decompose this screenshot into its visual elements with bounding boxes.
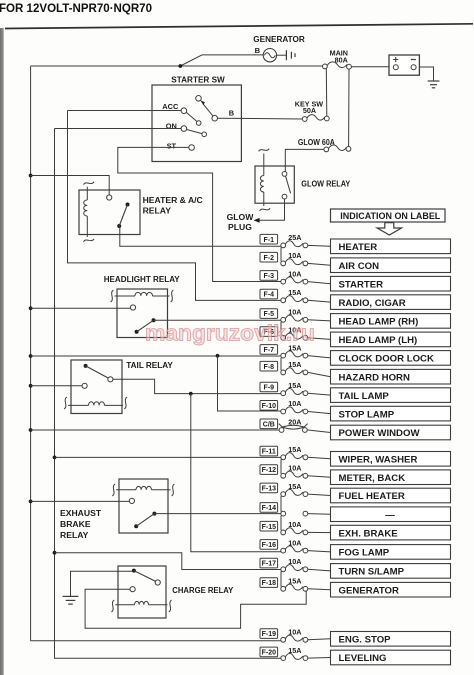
wire F-19 to label box: [308, 639, 331, 640]
fuse KEY SW 50A symbol: [302, 115, 329, 122]
glow relay box: [255, 166, 294, 203]
node dot bus to tail relay: [29, 384, 33, 388]
charge relay coil break right: [169, 600, 172, 612]
wire F-20 to label box: [308, 657, 331, 660]
generator G1 circle with sine: [263, 49, 276, 62]
label box POWER WINDOW: [331, 425, 451, 440]
fuse F-6 id box: [260, 327, 278, 337]
fuse F-11 id box: [260, 446, 278, 456]
wire F-17 to label box: [308, 569, 331, 571]
wire fuse pair link: [280, 459, 282, 474]
label box TURN S/LAMP: [331, 564, 451, 579]
svg-text:F-2: F-2: [264, 255, 275, 262]
label box WIPER, WASHER: [331, 452, 451, 467]
indication arrow: [377, 223, 401, 235]
wire MAIN to KEY SW fuse: [325, 69, 328, 117]
wire MAIN to GLOW fuse: [348, 69, 350, 146]
exhaust brake relay coil: [116, 486, 170, 489]
label box STOP LAMP: [331, 406, 451, 421]
wire fuse pair link: [280, 571, 282, 587]
label box FUEL HEATER: [331, 488, 451, 503]
label box HAZARD HORN: [331, 369, 451, 384]
svg-text:EXHAUST: EXHAUST: [60, 508, 102, 518]
wire F-13 to label box: [308, 494, 331, 495]
heater relay coil: [84, 187, 88, 237]
fuse F-6 symbol: [281, 333, 308, 340]
svg-text:HEATER & A/C: HEATER & A/C: [143, 195, 203, 205]
wire F-5 to label box: [308, 320, 331, 321]
exhaust brake relay coil break right: [172, 484, 175, 496]
label box METER, BACK: [331, 470, 451, 485]
ground (charge relay): [63, 596, 79, 604]
svg-text:STOP LAMP: STOP LAMP: [339, 409, 395, 420]
svg-text:POWER WINDOW: POWER WINDOW: [339, 428, 421, 439]
svg-text:HEAD LAMP (LH): HEAD LAMP (LH): [339, 335, 418, 346]
fuse F-9 symbol: [281, 389, 308, 396]
node junction dot at generator branch: [178, 64, 182, 68]
wire F-9 to label box: [308, 393, 331, 395]
wire F-16 to label box: [308, 551, 331, 552]
wire ON line to F-17 via jog: [55, 553, 281, 570]
svg-text:F-4: F-4: [264, 292, 275, 299]
wire headlight relay to F-5: [154, 319, 281, 321]
wire F-18 to label box: [308, 588, 331, 591]
svg-text:GLOW: GLOW: [227, 212, 255, 222]
tail relay switch blade: [84, 364, 113, 382]
svg-text:B: B: [229, 109, 234, 118]
fuse F-7 id box: [260, 345, 278, 355]
wire fuse pair link: [280, 516, 282, 531]
svg-text:—: —: [385, 510, 395, 521]
svg-text:F-1: F-1: [264, 237, 275, 244]
charge relay coil: [115, 601, 167, 604]
fuse F-18 id box: [260, 578, 278, 588]
svg-text:ON: ON: [166, 122, 177, 131]
label box TAIL LAMP: [331, 388, 451, 403]
node dot F-7 line branch to F-10: [216, 354, 220, 358]
tail relay coil break right: [124, 397, 127, 409]
label box GENERATOR: [331, 582, 451, 597]
svg-text:LEVELING: LEVELING: [339, 653, 387, 664]
svg-text:HEADLIGHT RELAY: HEADLIGHT RELAY: [104, 274, 180, 284]
wire ground to charge relay: [71, 571, 133, 596]
svg-text:FOG LAMP: FOG LAMP: [339, 548, 390, 559]
wire generator to suppressor: [277, 54, 287, 56]
fuse F-16 symbol: [281, 546, 308, 553]
svg-text:HEAD LAMP (RH): HEAD LAMP (RH): [339, 317, 419, 328]
heater relay common circle: [107, 195, 112, 200]
tail relay box: [71, 360, 122, 414]
glow relay coil break top: [259, 149, 270, 152]
svg-text:ACC: ACC: [162, 102, 179, 111]
wire tail relay to F-9: [113, 379, 281, 393]
fuse C/B symbol: [279, 424, 308, 433]
label box STARTER: [331, 276, 451, 291]
svg-text:F-20: F-20: [262, 650, 277, 657]
fuse F-10 id box: [260, 401, 278, 411]
wire tail branch down to F-16: [191, 394, 281, 552]
svg-text:F-7: F-7: [264, 347, 275, 354]
svg-text:F-9: F-9: [264, 385, 275, 392]
label box AIR CON: [331, 258, 451, 273]
svg-text:50A: 50A: [303, 106, 316, 115]
fuse F-20 symbol: [281, 653, 308, 660]
fuse MAIN 80A symbol: [323, 62, 352, 69]
headlight relay common circle: [130, 305, 135, 310]
contact ST circle: [189, 145, 195, 151]
svg-text:FOR 12VOLT-NPR70·NQR70: FOR 12VOLT-NPR70·NQR70: [0, 1, 152, 15]
label box HEAD LAMP (RH): [331, 314, 451, 329]
border frame (scan edge strip): [0, 28, 4, 675]
generator noise suppressor bars: [286, 50, 295, 60]
wire fuse pair link: [280, 496, 282, 512]
fuse F-15 symbol: [281, 528, 308, 535]
charge relay common circle: [130, 587, 135, 592]
svg-text:GLOW 60A: GLOW 60A: [298, 138, 335, 147]
svg-text:TAIL LAMP: TAIL LAMP: [339, 391, 390, 402]
label box HEAD LAMP (LH): [331, 332, 451, 347]
heater relay coil break bottom: [84, 239, 95, 242]
node dot tail line branch to F-16: [189, 392, 193, 396]
svg-text:CLOCK DOOR LOCK: CLOCK DOOR LOCK: [339, 354, 434, 365]
fuse F-11 symbol: [281, 453, 308, 460]
fuse F-8 symbol: [281, 368, 308, 375]
svg-text:C/B: C/B: [263, 421, 275, 428]
svg-text:EXH. BRAKE: EXH. BRAKE: [339, 528, 399, 539]
wire F-10 to label box: [308, 412, 331, 414]
glow plug arrow: [254, 218, 260, 223]
svg-text:STARTER: STARTER: [339, 279, 384, 290]
wire F-8 to label box: [308, 372, 331, 376]
glow relay coil: [260, 154, 263, 207]
fuse F-20 id box: [260, 647, 278, 657]
wire F-2 to label box: [308, 263, 331, 265]
headlight relay switch blade: [135, 318, 156, 334]
wire ACC line to F-4: [68, 111, 281, 301]
svg-text:GENERATOR: GENERATOR: [339, 585, 399, 596]
node dot bus to heater relay: [29, 174, 33, 178]
svg-text:ENG. STOP: ENG. STOP: [339, 635, 392, 646]
headlight relay box: [117, 289, 168, 338]
fuse F-19 id box: [260, 629, 278, 639]
fuse GLOW 60A symbol: [324, 145, 351, 152]
svg-text:TURN S/LAMP: TURN S/LAMP: [339, 567, 405, 578]
svg-text:F-13: F-13: [262, 486, 277, 493]
fuse F-4 id box: [260, 289, 278, 299]
fuse F-5 symbol: [281, 315, 308, 322]
node dot bus to F-7: [29, 354, 33, 358]
exhaust brake relay common circle: [129, 498, 134, 503]
fuse F-8 id box: [260, 361, 278, 371]
wire bus to tail relay common: [31, 385, 82, 387]
svg-text:B: B: [255, 46, 261, 55]
svg-text:METER, BACK: METER, BACK: [339, 473, 406, 484]
label box FOG LAMP: [331, 545, 451, 560]
wire exhaust brake relay to F-14: [154, 513, 280, 515]
wire GLOW fuse to glow relay: [285, 149, 324, 171]
label box ENG. STOP: [331, 632, 451, 647]
svg-text:INDICATION ON LABEL: INDICATION ON LABEL: [340, 211, 441, 221]
svg-text:F-11: F-11: [262, 449, 276, 456]
fuse F-18 symbol: [281, 584, 308, 591]
border frame top line: [5, 24, 473, 29]
node dot ON line F-17 branch: [53, 551, 57, 555]
svg-text:F-8: F-8: [264, 364, 275, 371]
headlight relay coil break right: [171, 290, 174, 302]
wire F-14 to label box: [308, 513, 331, 516]
label box LEVELING: [331, 650, 451, 665]
svg-text:F-14: F-14: [262, 505, 277, 512]
wire F-7 to label box: [308, 356, 331, 358]
svg-text:F-16: F-16: [262, 542, 277, 549]
svg-text:F-12: F-12: [262, 467, 277, 474]
wire F-1 to label box: [308, 244, 331, 247]
svg-text:F-19: F-19: [262, 631, 277, 638]
wire F-12 to label box: [308, 476, 331, 477]
fuse F-14 id box: [260, 503, 278, 513]
heater relay coil break top: [84, 182, 95, 185]
wire bus to C/B: [31, 429, 280, 431]
wire C/B to label box: [308, 430, 331, 433]
label box RADIO, CIGAR: [331, 295, 451, 310]
charge relay box: [118, 566, 166, 618]
svg-text:RELAY: RELAY: [60, 530, 89, 540]
svg-text:HAZARD HORN: HAZARD HORN: [339, 372, 410, 383]
wire B to KEY SW fuse: [218, 117, 303, 120]
node dot bus to headlight relay: [29, 306, 33, 310]
ground (battery): [428, 81, 440, 88]
fuse F-14 symbol: [281, 511, 308, 516]
wire fuse pair link: [280, 322, 282, 336]
charge relay switch blade: [132, 569, 160, 586]
wire charge relay to F-18 loop: [85, 589, 306, 628]
fuse F-19 symbol: [281, 635, 308, 642]
svg-text:HEATER: HEATER: [339, 242, 378, 253]
node dot ON line F-11 branch: [53, 456, 57, 460]
label box EXH. BRAKE: [331, 525, 451, 540]
headlight relay coil: [115, 292, 170, 296]
label box HEATER: [331, 239, 451, 254]
tail relay coil: [68, 402, 123, 406]
label box CLOCK DOOR LOCK: [331, 351, 451, 366]
wire bus to headlight relay common: [31, 307, 131, 309]
wire F-4 to label box: [308, 300, 331, 302]
wire bus to F-7: [31, 355, 281, 357]
wire ON line to F-11: [55, 456, 281, 458]
wire main bus vertical (battery bus x=31): [30, 66, 32, 641]
wire ST to F-3 via jog: [118, 147, 281, 281]
wire main top horizontal to MAIN fuse: [31, 65, 323, 67]
heater a/c relay box: [79, 190, 140, 235]
svg-text:F-3: F-3: [264, 273, 275, 280]
svg-text:F-10: F-10: [262, 403, 277, 410]
fuse F-3 id box: [260, 271, 278, 281]
wire F-11 to label box: [308, 457, 331, 459]
fuse F-12 id box: [260, 465, 278, 475]
battery BT1: [389, 55, 419, 75]
wire fuse pair link: [280, 247, 282, 261]
wire ACC feed: [68, 110, 182, 112]
svg-text:ST: ST: [167, 141, 177, 150]
fuse F-5 id box: [260, 309, 278, 319]
fuse F-13 symbol: [281, 489, 308, 496]
node dot bus to C/B: [29, 428, 33, 432]
wire bus to exhaust brake relay common: [31, 500, 130, 502]
fuse F-4 symbol: [281, 296, 308, 303]
wire F-15 to label box: [308, 531, 331, 533]
wire bus to heater relay common: [31, 176, 110, 195]
fuse F-7 symbol: [281, 351, 308, 358]
tail relay common circle: [82, 383, 87, 388]
fuse F-15 id box: [260, 521, 278, 531]
starter switch box: [152, 85, 241, 162]
svg-text:F-18: F-18: [262, 580, 277, 587]
wire MAIN fuse to battery: [351, 66, 389, 68]
heater relay switch blade: [117, 203, 129, 229]
glow relay coil break bottom: [260, 208, 271, 211]
wire ON line down to F-20: [55, 129, 281, 659]
wire battery to ground: [419, 67, 433, 81]
fuse F-12 symbol: [281, 471, 308, 478]
wire ON feed: [55, 128, 182, 130]
exhaust brake relay switch blade: [134, 512, 156, 529]
svg-text:GLOW RELAY: GLOW RELAY: [301, 179, 350, 189]
svg-text:CHARGE RELAY: CHARGE RELAY: [172, 585, 233, 595]
tail relay coil break left: [64, 397, 67, 409]
wire diagonal branch to generator: [180, 55, 263, 66]
exhaust brake relay box: [119, 479, 168, 533]
contact ACC circle and blade: [181, 108, 201, 125]
indication on label box: [331, 209, 446, 222]
svg-text:RADIO, CIGAR: RADIO, CIGAR: [339, 298, 406, 309]
node dot bus to exhaust brake relay: [29, 500, 33, 504]
fuse F-16 id box: [260, 540, 278, 550]
wire F-6 to label box: [308, 338, 331, 340]
fuse F-2 id box: [260, 252, 278, 262]
fuse F-9 id box: [260, 382, 278, 392]
fuse F-2 symbol: [281, 259, 308, 266]
fuse F-1 id box: [260, 234, 278, 244]
exhaust brake relay coil break left: [112, 484, 115, 496]
glow relay switch: [282, 172, 291, 200]
fuse F-17 symbol: [281, 565, 308, 572]
svg-text:PLUG: PLUG: [228, 222, 252, 232]
charge relay coil break left: [111, 600, 114, 612]
svg-text:RELAY: RELAY: [143, 206, 172, 216]
wire bus bottom to F-19: [31, 640, 281, 642]
svg-text:TAIL RELAY: TAIL RELAY: [126, 360, 173, 370]
fuse F-3 symbol: [281, 277, 308, 284]
fuse F-17 id box: [260, 558, 278, 568]
wire heater relay to F-1: [120, 227, 281, 247]
svg-text:WIPER, WASHER: WIPER, WASHER: [339, 455, 418, 466]
fuse F-1 symbol: [281, 241, 308, 248]
wire glow relay to glow plug: [259, 199, 285, 220]
svg-text:BRAKE: BRAKE: [60, 519, 91, 529]
contact ON circle and blade: [181, 126, 206, 137]
wire F-7 branch down to F-10: [218, 356, 281, 411]
svg-text:F-17: F-17: [262, 561, 277, 568]
fuse F-10 symbol: [281, 407, 308, 414]
wire fuse pair link: [280, 358, 282, 371]
svg-text:FUEL HEATER: FUEL HEATER: [339, 491, 405, 502]
headlight relay coil break left: [111, 290, 114, 302]
fuse F-13 id box: [260, 483, 278, 493]
svg-text:AIR CON: AIR CON: [339, 261, 380, 272]
svg-text:GENERATOR: GENERATOR: [253, 34, 305, 44]
svg-text:F-5: F-5: [264, 311, 275, 318]
fuse C/B id box: [260, 419, 278, 429]
contact B circle with key blade and arrow: [196, 96, 218, 121]
wire F-3 to label box: [308, 282, 331, 284]
svg-text:F-15: F-15: [262, 524, 277, 531]
label box blank F-14: [331, 507, 451, 522]
svg-text:mangruzovik.ru: mangruzovik.ru: [145, 321, 315, 346]
svg-text:STARTER SW: STARTER SW: [171, 75, 225, 85]
